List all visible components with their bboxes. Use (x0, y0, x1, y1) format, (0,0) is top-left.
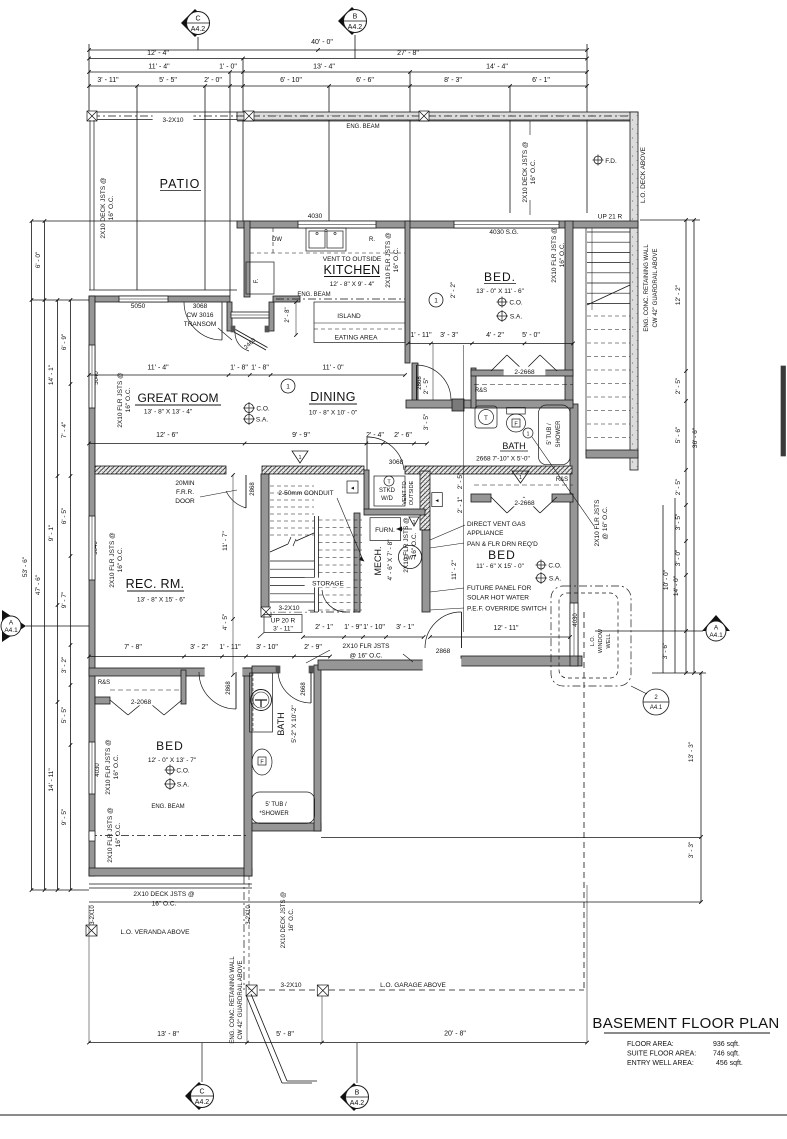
svg-text:4' - 6" X 7' - 8": 4' - 6" X 7' - 8" (387, 539, 394, 581)
svg-text:L.O. DECK ABOVE: L.O. DECK ABOVE (640, 146, 647, 203)
svg-text:2X10 FLR JSTS: 2X10 FLR JSTS (594, 499, 601, 547)
svg-text:7' - 4": 7' - 4" (61, 421, 68, 438)
svg-text:APPLIANCE: APPLIANCE (467, 530, 504, 537)
svg-text:2-50mm CONDUIT: 2-50mm CONDUIT (278, 490, 333, 497)
svg-text:1: 1 (298, 455, 301, 461)
svg-text:ENG. BEAM: ENG. BEAM (346, 124, 379, 130)
svg-text:10' - 8" X 10' - 0": 10' - 8" X 10' - 0" (309, 410, 358, 417)
svg-text:3' - 1": 3' - 1" (396, 624, 414, 631)
svg-text:16" O.C.: 16" O.C. (393, 247, 400, 272)
svg-text:2' - 5": 2' - 5" (457, 472, 464, 489)
svg-text:4030 S.G.: 4030 S.G. (489, 229, 518, 236)
svg-text:KITCHEN: KITCHEN (324, 263, 381, 277)
svg-text:TRANSOM: TRANSOM (184, 321, 217, 328)
svg-text:B: B (355, 1090, 360, 1097)
svg-text:9' - 1": 9' - 1" (48, 524, 55, 541)
svg-text:L.O.: L.O. (590, 635, 596, 646)
svg-text:WELL: WELL (606, 634, 612, 649)
svg-text:746 sqft.: 746 sqft. (713, 1051, 740, 1058)
svg-text:EATING AREA: EATING AREA (335, 335, 379, 342)
svg-text:T: T (484, 416, 488, 422)
svg-text:2868: 2868 (250, 482, 256, 496)
svg-text:3-2X10: 3-2X10 (90, 905, 96, 925)
svg-text:47' - 6": 47' - 6" (35, 574, 42, 595)
svg-text:A4.2: A4.2 (195, 1099, 210, 1106)
svg-text:F.R.R.: F.R.R. (176, 489, 194, 496)
svg-text:1' - 9": 1' - 9" (344, 624, 362, 631)
svg-text:S.A.: S.A. (177, 782, 189, 789)
svg-text:12' - 2": 12' - 2" (675, 284, 682, 305)
svg-text:REC. RM.: REC. RM. (126, 577, 185, 591)
svg-text:2' - 1": 2' - 1" (457, 496, 464, 513)
svg-text:14' - 1": 14' - 1" (48, 364, 55, 385)
svg-text:A4.2: A4.2 (191, 26, 206, 33)
svg-text:2X10 FLR JSTS @: 2X10 FLR JSTS @ (403, 517, 410, 573)
svg-text:2X10 FLR JSTS @: 2X10 FLR JSTS @ (385, 232, 392, 288)
svg-text:DIRECT VENT GAS: DIRECT VENT GAS (467, 521, 526, 528)
svg-text:2X10 FLR JSTS @: 2X10 FLR JSTS @ (109, 532, 116, 588)
svg-text:2' - 1": 2' - 1" (315, 624, 333, 631)
svg-text:ENG. BEAM: ENG. BEAM (297, 292, 330, 298)
svg-text:GREAT ROOM: GREAT ROOM (138, 391, 219, 405)
svg-text:1: 1 (519, 475, 522, 481)
svg-text:3-2X10: 3-2X10 (163, 117, 184, 124)
svg-text:OUTSIDE: OUTSIDE (409, 480, 415, 505)
svg-text:3068: 3068 (389, 459, 404, 466)
svg-text:13' - 0" X 11' - 6": 13' - 0" X 11' - 6" (476, 288, 524, 295)
svg-text:2X10 FLR JSTS @: 2X10 FLR JSTS @ (105, 739, 112, 795)
svg-text:ENTRY WELL AREA:: ENTRY WELL AREA: (627, 1060, 694, 1067)
svg-text:3' - 5": 3' - 5" (423, 413, 430, 430)
svg-text:6' - 9": 6' - 9" (61, 333, 68, 350)
svg-text:2668 7'-10" X 5'-0": 2668 7'-10" X 5'-0" (476, 456, 530, 463)
svg-text:◄: ◄ (350, 486, 355, 492)
svg-text:◄: ◄ (435, 498, 440, 504)
svg-text:53' - 6": 53' - 6" (22, 556, 29, 577)
svg-text:3' - 11": 3' - 11" (273, 626, 293, 633)
svg-text:2X10 FLR JSTS @: 2X10 FLR JSTS @ (107, 807, 114, 863)
svg-text:C.O.: C.O. (548, 563, 562, 570)
svg-text:1: 1 (412, 520, 415, 526)
svg-text:5' TUB /: 5' TUB / (265, 802, 287, 808)
svg-text:13' - 4": 13' - 4" (313, 64, 335, 71)
svg-text:5' TUB /: 5' TUB / (547, 423, 553, 445)
svg-text:UP 20 R: UP 20 R (271, 618, 296, 625)
svg-text:36' - 6": 36' - 6" (692, 427, 699, 448)
svg-text:L.O. VERANDA ABOVE: L.O. VERANDA ABOVE (121, 929, 191, 936)
svg-text:CW 3016: CW 3016 (186, 312, 213, 319)
svg-text:2' - 5": 2' - 5" (675, 377, 682, 394)
svg-text:SUITE FLOOR AREA:: SUITE FLOOR AREA: (627, 1051, 696, 1058)
svg-text:12' - 0" X 13' - 7": 12' - 0" X 13' - 7" (148, 757, 197, 764)
svg-text:16" O.C.: 16" O.C. (113, 754, 120, 779)
svg-text:40' - 0": 40' - 0" (311, 39, 333, 46)
svg-text:13' - 3": 13' - 3" (688, 741, 695, 762)
svg-text:2668: 2668 (301, 682, 307, 696)
svg-text:11' - 4": 11' - 4" (148, 64, 170, 71)
svg-text:16" O.C.: 16" O.C. (117, 547, 124, 572)
svg-text:11' - 7": 11' - 7" (222, 530, 229, 550)
svg-text:4030: 4030 (573, 613, 579, 627)
svg-text:12' - 11": 12' - 11" (493, 625, 519, 632)
svg-text:11' - 6" X 15' - 0": 11' - 6" X 15' - 0" (476, 563, 524, 570)
svg-text:5' - 8": 5' - 8" (276, 1031, 294, 1038)
svg-text:ENG. BEAM: ENG. BEAM (151, 804, 184, 810)
svg-text:*SHOWER: *SHOWER (259, 811, 289, 817)
svg-text:3-2X10: 3-2X10 (279, 605, 300, 612)
svg-text:A4.1: A4.1 (709, 632, 723, 639)
svg-text:F.D.: F.D. (605, 158, 617, 165)
svg-text:14' - 0": 14' - 0" (673, 575, 680, 596)
svg-text:9' - 7": 9' - 7" (61, 591, 68, 608)
svg-text:PAN & FLR DRN REQ'D: PAN & FLR DRN REQ'D (467, 541, 538, 548)
svg-text:R&S: R&S (475, 388, 487, 394)
svg-text:CW 42" GUARDRAIL ABOVE: CW 42" GUARDRAIL ABOVE (653, 249, 659, 328)
svg-text:1' - 11": 1' - 11" (410, 332, 432, 339)
svg-text:16" O.C.: 16" O.C. (559, 242, 566, 267)
svg-text:A4.1: A4.1 (4, 627, 18, 634)
svg-text:L.O. GARAGE ABOVE: L.O. GARAGE ABOVE (380, 982, 446, 989)
svg-text:3' - 2": 3' - 2" (61, 656, 68, 673)
svg-text:1' - 10": 1' - 10" (363, 624, 385, 631)
svg-text:2-2668: 2-2668 (514, 500, 535, 507)
svg-text:W/D: W/D (381, 496, 393, 502)
svg-text:16" O.C.: 16" O.C. (125, 387, 132, 412)
svg-text:C.O.: C.O. (509, 300, 523, 307)
svg-text:3' - 2": 3' - 2" (190, 644, 208, 651)
svg-text:CW 42" GUARDRAIL ABOVE: CW 42" GUARDRAIL ABOVE (238, 961, 244, 1040)
svg-text:A4.1: A4.1 (650, 705, 663, 711)
svg-text:13' - 8" X 13' - 4": 13' - 8" X 13' - 4" (144, 409, 193, 416)
svg-text:2X10 FLR JSTS @: 2X10 FLR JSTS @ (551, 227, 558, 283)
svg-text:1' - 11": 1' - 11" (219, 644, 241, 651)
svg-text:@ 16" O.C.: @ 16" O.C. (602, 506, 609, 539)
svg-text:BATH: BATH (502, 441, 525, 451)
svg-text:2' - 5": 2' - 5" (423, 377, 430, 394)
svg-text:20MIN: 20MIN (175, 480, 194, 487)
svg-text:16" O.C.: 16" O.C. (411, 532, 418, 557)
svg-text:14' - 4": 14' - 4" (486, 64, 508, 71)
svg-text:13' - 8": 13' - 8" (157, 1031, 179, 1038)
svg-text:ENG. CONC. RETAINING WALL: ENG. CONC. RETAINING WALL (644, 244, 650, 332)
svg-text:3' - 11": 3' - 11" (97, 77, 119, 84)
svg-text:F.: F. (254, 278, 260, 283)
svg-text:8' - 3": 8' - 3" (444, 77, 462, 84)
svg-text:ISLAND: ISLAND (337, 313, 361, 320)
svg-text:1: 1 (434, 298, 438, 305)
svg-text:3' - 10": 3' - 10" (256, 644, 278, 651)
svg-text:9' - 9": 9' - 9" (292, 432, 310, 439)
svg-text:6' - 0": 6' - 0" (35, 251, 42, 268)
svg-text:UP 21 R: UP 21 R (598, 214, 623, 221)
svg-text:7' - 8": 7' - 8" (124, 644, 142, 651)
svg-text:4' - 5": 4' - 5" (222, 613, 229, 630)
svg-text:2868: 2868 (226, 681, 232, 695)
svg-text:5' - 0": 5' - 0" (522, 332, 540, 339)
svg-text:C: C (195, 16, 200, 23)
svg-text:12' - 6": 12' - 6" (156, 432, 178, 439)
svg-text:6' - 6": 6' - 6" (356, 77, 374, 84)
svg-text:12' - 4": 12' - 4" (147, 50, 169, 57)
svg-text:2X10 FLR JSTS @: 2X10 FLR JSTS @ (117, 372, 124, 428)
svg-text:P.E.F. OVERRIDE SWITCH: P.E.F. OVERRIDE SWITCH (467, 606, 547, 613)
svg-text:DW: DW (272, 237, 282, 243)
svg-text:C: C (199, 1089, 204, 1096)
svg-text:6' - 5": 6' - 5" (61, 507, 68, 524)
svg-text:ENG. CONC. RETAINING WALL: ENG. CONC. RETAINING WALL (230, 956, 236, 1044)
svg-text:13' - 8" X 15' - 6": 13' - 8" X 15' - 6" (137, 597, 186, 604)
svg-text:6' - 1": 6' - 1" (532, 77, 550, 84)
svg-text:2X10 DECK JSTS @: 2X10 DECK JSTS @ (100, 177, 107, 239)
svg-text:STORAGE: STORAGE (312, 581, 344, 588)
svg-text:2' - 8": 2' - 8" (285, 307, 291, 322)
svg-text:20' - 8": 20' - 8" (444, 1031, 466, 1038)
svg-text:9' - 5": 9' - 5" (61, 808, 68, 825)
svg-text:5050: 5050 (131, 303, 146, 310)
svg-text:A4.2: A4.2 (348, 24, 363, 31)
svg-text:BED: BED (156, 739, 184, 753)
svg-text:16" O.C.: 16" O.C. (152, 901, 177, 908)
svg-text:BASEMENT FLOOR PLAN: BASEMENT FLOOR PLAN (592, 1015, 779, 1032)
svg-text:1' - 8": 1' - 8" (230, 365, 248, 372)
svg-text:3-2X10: 3-2X10 (281, 982, 302, 989)
svg-text:3' - 0": 3' - 0" (675, 549, 682, 566)
svg-text:3' - 3": 3' - 3" (440, 332, 458, 339)
svg-text:2' - 0": 2' - 0" (204, 77, 222, 84)
svg-text:16" O.C.: 16" O.C. (115, 822, 122, 847)
svg-text:S.A.: S.A. (510, 314, 522, 321)
svg-text:456 sqft.: 456 sqft. (716, 1060, 743, 1067)
svg-text:WINDOW: WINDOW (598, 628, 604, 653)
svg-text:16" O.C.: 16" O.C. (108, 195, 115, 220)
svg-text:2X10 DECK JSTS @: 2X10 DECK JSTS @ (281, 892, 287, 948)
svg-text:4030: 4030 (95, 763, 101, 777)
svg-text:DOOR: DOOR (175, 498, 195, 505)
svg-text:R.: R. (369, 237, 375, 243)
svg-text:A: A (714, 625, 719, 632)
svg-text:3' - 5": 3' - 5" (675, 513, 682, 530)
svg-text:1' - 0": 1' - 0" (219, 64, 237, 71)
svg-text:BATH: BATH (276, 712, 286, 735)
svg-text:R&S: R&S (98, 680, 110, 686)
svg-text:16" O.C.: 16" O.C. (289, 908, 295, 931)
svg-text:VENT TO OUTSIDE: VENT TO OUTSIDE (323, 256, 382, 263)
svg-text:2' - 9": 2' - 9" (304, 644, 322, 651)
svg-text:12' - 8" X 9' - 4": 12' - 8" X 9' - 4" (330, 281, 375, 288)
svg-text:2X10 DECK JSTS @: 2X10 DECK JSTS @ (133, 891, 195, 898)
svg-text:PATIO: PATIO (160, 177, 201, 191)
svg-text:S.A.: S.A. (256, 417, 268, 424)
svg-text:2X10 FLR JSTS: 2X10 FLR JSTS (343, 643, 391, 650)
svg-text:FUTURE PANEL FOR: FUTURE PANEL FOR (467, 585, 532, 592)
svg-text:DINING: DINING (310, 390, 356, 404)
svg-text:936 sqft.: 936 sqft. (713, 1041, 740, 1048)
svg-text:11' - 2": 11' - 2" (451, 559, 458, 579)
svg-text:2' - 6": 2' - 6" (394, 432, 412, 439)
svg-text:2-2068: 2-2068 (131, 699, 152, 706)
svg-text:1: 1 (527, 432, 530, 438)
svg-text:STKD: STKD (379, 488, 396, 494)
svg-text:16" O.C.: 16" O.C. (530, 159, 537, 184)
svg-text:SHOWER: SHOWER (556, 420, 562, 448)
svg-text:5' - 5": 5' - 5" (159, 77, 177, 84)
svg-text:A4.2: A4.2 (350, 1100, 365, 1107)
svg-text:B: B (353, 14, 358, 21)
svg-text:5' - 5": 5' - 5" (61, 706, 68, 723)
svg-text:2' - 5": 2' - 5" (675, 478, 682, 495)
svg-text:10' - 0": 10' - 0" (663, 569, 670, 590)
svg-text:2' - 2": 2' - 2" (450, 281, 457, 298)
svg-text:11' - 4": 11' - 4" (147, 365, 169, 372)
svg-text:2' - 4": 2' - 4" (366, 432, 384, 439)
svg-text:S.A.: S.A. (549, 576, 561, 583)
svg-text:5' - 6": 5' - 6" (675, 426, 682, 443)
svg-text:4' - 2": 4' - 2" (486, 332, 504, 339)
svg-text:MECH.: MECH. (373, 547, 383, 576)
svg-text:3068: 3068 (193, 303, 208, 310)
svg-text:C.O.: C.O. (256, 406, 270, 413)
svg-text:VENT TO: VENT TO (402, 481, 408, 505)
svg-text:5'-2" X 10'-2": 5'-2" X 10'-2" (291, 705, 298, 743)
svg-text:BED.: BED. (484, 270, 516, 284)
svg-text:C.O.: C.O. (176, 768, 190, 775)
svg-text:@ 16" O.C.: @ 16" O.C. (349, 653, 382, 660)
svg-text:2X10 DECK JSTS @: 2X10 DECK JSTS @ (522, 141, 529, 203)
svg-text:3' - 6": 3' - 6" (662, 642, 669, 659)
svg-text:6' - 10": 6' - 10" (280, 77, 302, 84)
svg-text:SOLAR HOT WATER: SOLAR HOT WATER (467, 595, 529, 602)
svg-text:4030: 4030 (308, 213, 323, 220)
svg-text:BED: BED (488, 548, 516, 562)
svg-text:14' - 11": 14' - 11" (48, 768, 55, 792)
svg-text:27' - 8": 27' - 8" (397, 50, 419, 57)
svg-text:FLOOR AREA:: FLOOR AREA: (627, 1041, 674, 1048)
svg-text:1: 1 (286, 384, 290, 391)
svg-text:11' - 0": 11' - 0" (322, 365, 344, 372)
svg-text:2-2668: 2-2668 (514, 369, 535, 376)
svg-text:FURN.: FURN. (375, 527, 395, 534)
svg-text:2868: 2868 (436, 648, 451, 655)
svg-text:A: A (9, 620, 14, 627)
svg-text:1' - 8": 1' - 8" (251, 365, 269, 372)
svg-text:3' - 3": 3' - 3" (688, 841, 695, 858)
